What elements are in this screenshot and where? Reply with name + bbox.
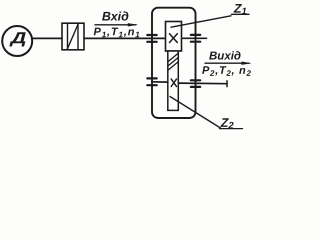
svg-text:Д: Д [8,30,27,47]
svg-text:Вихід: Вихід [209,50,241,62]
svg-text:P1,T1,n1: P1,T1,n1 [94,26,141,39]
svg-text:Вхід: Вхід [102,9,129,23]
